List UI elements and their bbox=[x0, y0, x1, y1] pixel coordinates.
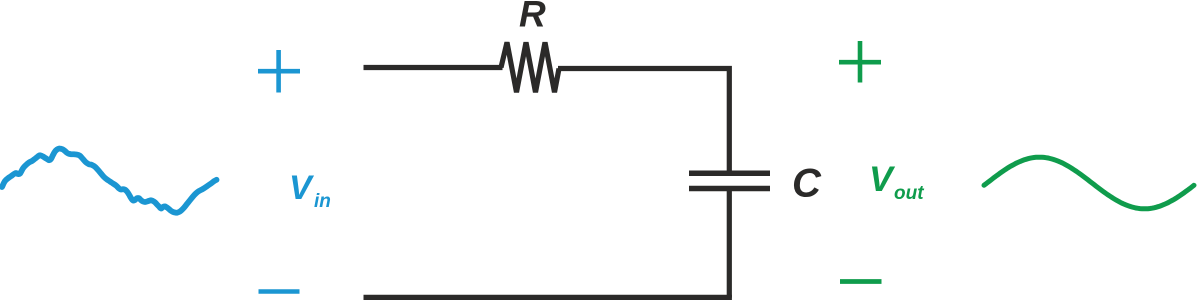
wire: bottom rail back to Vin bbox=[364, 295, 732, 300]
svg-text:V: V bbox=[289, 169, 315, 207]
plus sign (Vout polarity) bbox=[839, 41, 881, 83]
svg-text:R: R bbox=[519, 0, 546, 35]
resistor R (zigzag) bbox=[501, 42, 559, 92]
svg-text:V: V bbox=[869, 159, 896, 199]
input noisy sine wave (Vin signal) bbox=[2, 149, 217, 213]
wire: resistor to top-right corner, down to capacitor bbox=[558, 69, 729, 174]
capacitor C bottom plate bbox=[689, 186, 770, 192]
svg-text:out: out bbox=[894, 183, 924, 204]
output smooth sine wave (Vout signal) bbox=[984, 157, 1194, 209]
wire: top rail from Vin to resistor bbox=[364, 65, 503, 70]
svg-text:C: C bbox=[792, 162, 822, 206]
capacitor C top plate bbox=[689, 170, 770, 176]
svg-text:in: in bbox=[314, 191, 331, 212]
wire: capacitor bottom leg bbox=[727, 189, 732, 298]
minus sign (Vin polarity) bbox=[259, 289, 300, 294]
minus sign (Vout polarity) bbox=[840, 279, 882, 284]
plus sign (Vin polarity) bbox=[258, 50, 300, 93]
